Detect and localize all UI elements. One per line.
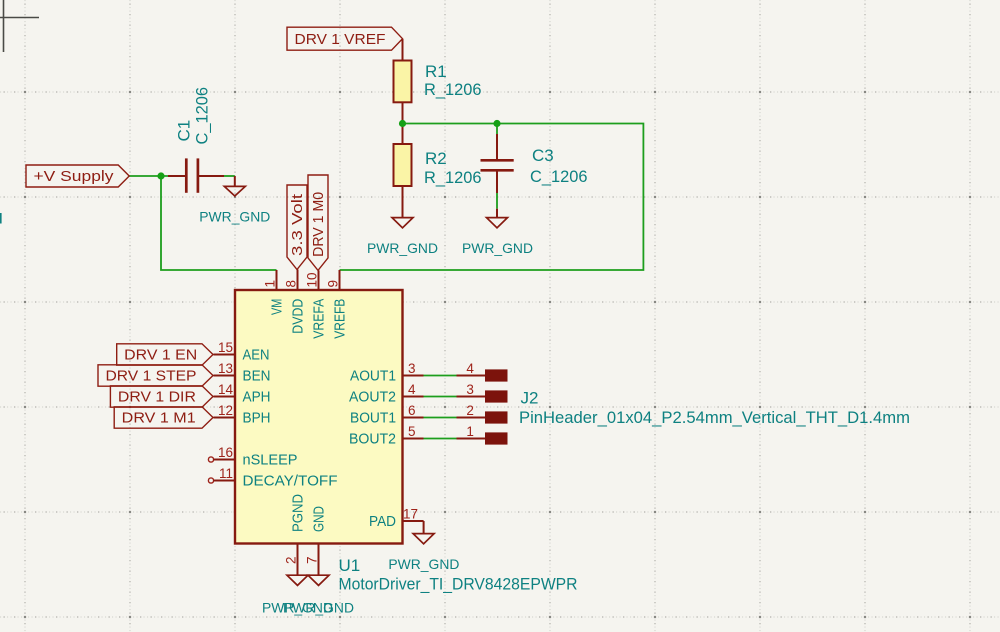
- svg-text:PWR_GND: PWR_GND: [199, 208, 270, 224]
- svg-text:R1: R1: [425, 62, 447, 81]
- svg-text:DVDD: DVDD: [291, 299, 307, 334]
- svg-text:PWR_GND: PWR_GND: [367, 240, 438, 256]
- svg-text:14: 14: [218, 382, 234, 397]
- svg-text:R2: R2: [425, 149, 447, 168]
- svg-text:VREFB: VREFB: [333, 299, 349, 339]
- svg-text:GND: GND: [312, 506, 328, 532]
- svg-text:+V Supply: +V Supply: [34, 169, 115, 185]
- svg-text:BOUT2: BOUT2: [349, 432, 396, 448]
- svg-text:C_1206: C_1206: [193, 87, 212, 145]
- svg-text:4: 4: [408, 382, 416, 397]
- svg-text:8: 8: [283, 280, 298, 288]
- svg-text:VREFA: VREFA: [312, 298, 328, 338]
- svg-text:BPH: BPH: [243, 411, 271, 427]
- svg-text:4: 4: [466, 361, 474, 376]
- svg-text:PWR_GND: PWR_GND: [283, 599, 354, 615]
- svg-text:PinHeader_01x04_P2.54mm_Vertic: PinHeader_01x04_P2.54mm_Vertical_THT_D1.…: [519, 408, 910, 427]
- svg-text:PGND: PGND: [291, 494, 307, 532]
- svg-text:AOUT2: AOUT2: [349, 390, 396, 406]
- svg-text:C_1206: C_1206: [530, 167, 588, 186]
- svg-text:DRV 1 EN: DRV 1 EN: [124, 348, 197, 364]
- svg-text:DECAY/TOFF: DECAY/TOFF: [243, 474, 338, 490]
- svg-text:DRV 1 M0: DRV 1 M0: [311, 192, 327, 257]
- svg-text:DRV 1 VREF: DRV 1 VREF: [295, 32, 386, 48]
- svg-text:DRV 1 STEP: DRV 1 STEP: [106, 369, 197, 385]
- svg-text:J2: J2: [521, 388, 539, 407]
- svg-text:DRV 1 DIR: DRV 1 DIR: [118, 390, 196, 406]
- svg-text:3: 3: [408, 361, 416, 376]
- svg-text:1: 1: [262, 280, 277, 288]
- svg-text:12: 12: [218, 403, 233, 418]
- svg-text:3.3 Volt: 3.3 Volt: [290, 194, 306, 256]
- svg-text:R_1206: R_1206: [424, 80, 482, 99]
- svg-text:15: 15: [218, 340, 233, 355]
- svg-text:C1: C1: [175, 120, 194, 142]
- svg-text:C3: C3: [532, 146, 554, 165]
- svg-text:BOUT1: BOUT1: [350, 411, 396, 427]
- svg-text:PAD: PAD: [369, 514, 396, 530]
- svg-text:6: 6: [408, 403, 416, 418]
- svg-text:13: 13: [218, 361, 233, 376]
- svg-text:3: 3: [466, 382, 474, 397]
- svg-text:9: 9: [325, 280, 340, 288]
- svg-text:16: 16: [218, 445, 233, 460]
- svg-text:BEN: BEN: [243, 369, 271, 385]
- svg-text:U1: U1: [339, 556, 361, 575]
- svg-text:11: 11: [219, 466, 233, 481]
- svg-text:MotorDriver_TI_DRV8428EPWPR: MotorDriver_TI_DRV8428EPWPR: [339, 575, 578, 594]
- svg-text:10: 10: [304, 272, 319, 287]
- svg-text:2: 2: [466, 403, 474, 418]
- svg-text:5: 5: [408, 424, 416, 439]
- svg-text:2: 2: [283, 556, 298, 564]
- svg-text:R_1206: R_1206: [424, 168, 482, 187]
- svg-text:VM: VM: [270, 299, 286, 315]
- svg-text:AOUT1: AOUT1: [350, 369, 396, 385]
- svg-text:PWR_GND: PWR_GND: [462, 240, 533, 256]
- svg-text:DRV 1 M1: DRV 1 M1: [122, 411, 196, 427]
- svg-text:nSLEEP: nSLEEP: [243, 453, 298, 469]
- svg-text:AEN: AEN: [243, 348, 270, 364]
- svg-text:APH: APH: [243, 390, 271, 406]
- svg-text:17: 17: [403, 506, 418, 521]
- svg-text:7: 7: [304, 556, 319, 564]
- svg-text:1: 1: [466, 424, 474, 439]
- svg-text:PWR_GND: PWR_GND: [388, 556, 459, 572]
